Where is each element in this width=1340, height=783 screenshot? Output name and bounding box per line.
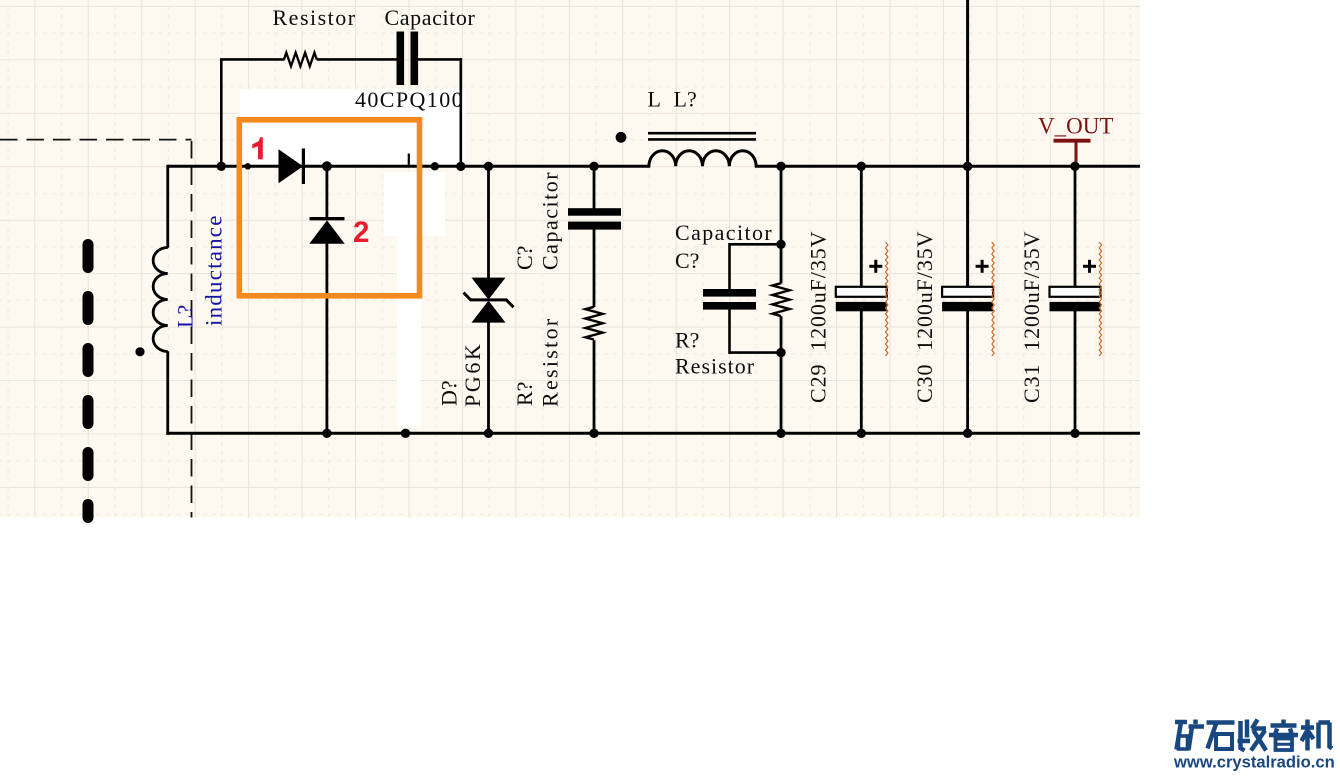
resistor R? vertical zigzag — [585, 307, 602, 340]
capacitor C? output plate top — [703, 289, 756, 297]
wire: C? snubber branch upper — [593, 166, 596, 208]
svg-text:Capacitor: Capacitor — [385, 5, 476, 30]
TVS D? breakdown bar — [464, 293, 514, 308]
capacitor C? plate bottom — [568, 222, 621, 230]
capacitor C? output plate bottom — [703, 302, 756, 310]
svg-text:C29 1200uF/35V: C29 1200uF/35V — [806, 231, 831, 403]
wire: main top bus — [168, 165, 650, 168]
svg-text:Capacitor: Capacitor — [675, 220, 773, 245]
wire: resistor to capacitor — [317, 58, 397, 61]
svg-text:R?: R? — [512, 382, 537, 406]
schematic sheet background — [0, 0, 1140, 518]
inductor L? winding arcs — [153, 248, 168, 352]
svg-text:Resistor: Resistor — [538, 316, 563, 407]
node: RC top junction — [776, 240, 785, 249]
diode 1 of 40CPQ100 triangle — [279, 149, 304, 183]
wire: output C? left drop upper — [728, 243, 731, 289]
diode 2 cathode bar — [310, 217, 345, 220]
power port V_OUT bar — [1054, 139, 1091, 143]
wire: output RC bottom stub — [730, 351, 782, 354]
diode 2 triangle — [309, 220, 344, 243]
inductor L L? phasing dot — [616, 132, 627, 143]
capacitor snubber plate right — [411, 32, 419, 86]
wire: capacitor to right corner — [418, 58, 462, 61]
svg-text:C?: C? — [675, 248, 699, 273]
wire: diode 2 branch lower — [325, 244, 328, 434]
sheet boundary dashed line vertical — [191, 141, 193, 518]
capacitor C30 electrolytic — [942, 0, 994, 433]
wire: winding bottom vertical — [166, 351, 169, 435]
svg-text:C31 1200uF/35V: C31 1200uF/35V — [1019, 231, 1044, 403]
label C? Capacitor (rotated) — [512, 171, 563, 270]
wire: snubber top left horizontal — [220, 58, 285, 61]
capacitor C29 electrolytic — [836, 166, 888, 433]
svg-text:C?: C? — [512, 246, 537, 270]
label Capacitor C? (output RC) — [675, 220, 773, 273]
wire: snubber left vertical — [220, 59, 223, 166]
inductor L? phasing dot — [135, 347, 144, 356]
svg-text:www.crystalradio.cn: www.crystalradio.cn — [1173, 753, 1335, 772]
white erased patch behind 40CPQ100 and diode box — [240, 89, 466, 164]
svg-text:V_OUT: V_OUT — [1038, 114, 1113, 139]
diode 1 cathode bar — [302, 149, 305, 185]
wire: diode 2 branch upper — [325, 166, 328, 218]
svg-text:PG6K: PG6K — [460, 342, 485, 407]
node junction dots on top bus — [217, 162, 226, 171]
label D? PG6K (rotated) — [437, 342, 486, 407]
wire: output RC top stub — [730, 243, 782, 246]
label R? Resistor (output RC) — [675, 327, 755, 378]
svg-text:Capacitor: Capacitor — [538, 171, 563, 270]
inductor L L? core bars — [648, 132, 756, 135]
resistor R? output zigzag — [772, 283, 789, 316]
pin stub of 40CPQ100 pin 3 — [408, 154, 410, 167]
wire: left vertical to winding — [166, 165, 169, 248]
capacitor C? plate top — [568, 208, 621, 216]
sheet boundary dashed line horizontal — [0, 139, 192, 141]
wire: output RC branch lower — [780, 316, 783, 433]
white erased patch below bus right of diode box — [384, 172, 445, 236]
glyph yin — [1269, 720, 1298, 751]
white erased vertical strip above bottom bus — [397, 236, 421, 428]
wire: TVS D? branch lower — [487, 322, 490, 433]
wire: main bottom bus — [166, 432, 1140, 435]
TVS D? bottom triangle — [472, 301, 506, 323]
svg-text:Resistor: Resistor — [273, 5, 357, 30]
resistor R? snubber zigzag — [284, 53, 317, 67]
glyph kuang — [1175, 720, 1204, 751]
watermark logo kuangshi shouyinji (drawn glyphs) — [1175, 720, 1332, 751]
svg-text:inductance: inductance — [202, 214, 227, 326]
svg-text:D?: D? — [437, 380, 462, 406]
glyph shou — [1238, 720, 1267, 751]
svg-text:Resistor: Resistor — [675, 353, 755, 378]
label L? inductance (blue rotated) — [173, 214, 227, 328]
node junction dots on bottom bus — [322, 429, 331, 438]
glyph shi — [1207, 723, 1235, 750]
svg-text:L?: L? — [674, 87, 697, 112]
svg-text:L?: L? — [173, 305, 198, 328]
highlight box around 40CPQ100 diodes — [239, 120, 419, 296]
svg-text:R?: R? — [675, 327, 699, 352]
wire: C? to R? — [593, 229, 596, 307]
wire: output C? left drop lower — [728, 310, 731, 354]
transformer core thick dashed line — [83, 245, 94, 518]
capacitor snubber plate left — [397, 32, 405, 86]
wire: output RC branch upper — [780, 166, 783, 283]
inductor L L? winding arcs — [649, 151, 756, 167]
label R? Resistor (rotated) — [512, 316, 563, 407]
pin number 1 — [252, 137, 262, 159]
wire: TVS D? branch upper — [487, 166, 490, 278]
TVS D? top triangle — [472, 278, 506, 300]
power port V_OUT stem — [1075, 141, 1078, 166]
svg-text:C30 1200uF/35V: C30 1200uF/35V — [912, 231, 937, 403]
svg-text:2: 2 — [353, 216, 369, 249]
node: RC bottom junction — [776, 348, 785, 357]
wire: snubber right vertical — [459, 58, 462, 166]
capacitor C31 electrolytic — [1050, 166, 1102, 433]
wire: R? to bottom bus — [593, 340, 596, 433]
svg-text:L: L — [648, 87, 661, 112]
svg-text:40CPQ100: 40CPQ100 — [355, 87, 464, 112]
glyph ji — [1301, 720, 1332, 751]
